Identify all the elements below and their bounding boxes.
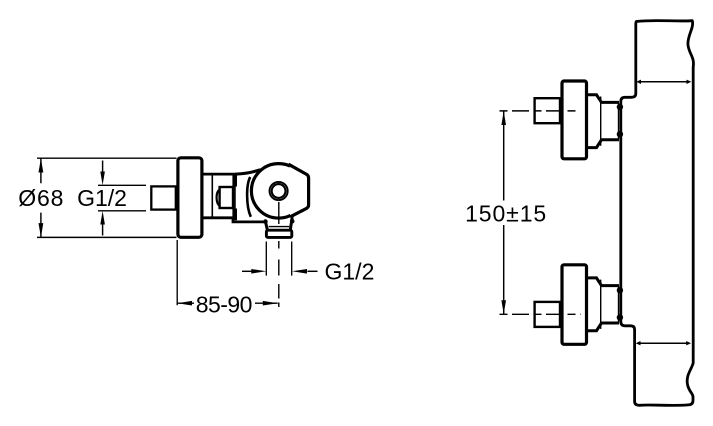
arrow down 150+-15 <box>501 300 506 314</box>
bottom inlet flange <box>562 265 587 345</box>
arrow down O68 <box>39 223 44 237</box>
outlet block <box>266 230 291 237</box>
bottom inlet step upper <box>588 278 619 286</box>
dimension 85-90 right arrow <box>255 301 278 306</box>
body ring vertical <box>211 174 213 218</box>
outlet junction blobs <box>263 219 294 224</box>
arrow up O68 <box>39 158 44 172</box>
outlet left wall <box>265 221 267 230</box>
body ring bottom line <box>203 218 266 222</box>
dimension 85-90 left arrow <box>177 301 194 306</box>
stem band thin <box>234 187 236 209</box>
arrow up 150+-15 <box>501 111 506 125</box>
extension line G1/2 upper <box>98 184 146 186</box>
outlet right wall <box>290 217 292 229</box>
handle body <box>236 163 312 218</box>
dimension line 150+-15 <box>503 111 505 314</box>
extension line 85-90 left <box>176 240 178 305</box>
body ring top line <box>203 173 236 176</box>
stem band <box>232 175 237 220</box>
svg-text:G1/2: G1/2 <box>77 185 127 211</box>
bottom inlet nub <box>535 302 560 327</box>
arrow down G1/2 <box>100 161 105 186</box>
inlet nub left figure <box>151 186 176 209</box>
top inlet step verticals <box>601 97 619 146</box>
body seam line bottom <box>636 341 691 345</box>
top inlet step lower <box>588 140 619 148</box>
top inlet o-ring dots <box>617 104 623 138</box>
top inlet flange <box>562 81 587 159</box>
cartridge arc <box>217 190 220 207</box>
right figure body <box>621 21 694 406</box>
outlet extension line right <box>291 242 293 276</box>
arrow up G1/2 <box>100 211 105 236</box>
extension line bottom (O68) <box>37 236 177 238</box>
extension line top (O68) <box>37 157 177 159</box>
outlet extension line left <box>265 242 267 276</box>
handle button <box>270 182 288 200</box>
top inlet nub <box>535 98 560 123</box>
dimension line O68 <box>40 158 42 237</box>
outlet inner line <box>269 226 290 228</box>
svg-text:150±15: 150±15 <box>465 201 547 227</box>
cartridge block <box>220 187 233 208</box>
handle skirt arc <box>247 177 251 217</box>
svg-text:G1/2: G1/2 <box>325 259 375 285</box>
dimension G1/2 bottom left part <box>242 269 266 274</box>
svg-text:85-90: 85-90 <box>196 291 252 317</box>
bottom inlet o-ring dots <box>617 287 623 321</box>
extension line G1/2 lower <box>98 210 146 212</box>
top inlet centerline <box>500 110 581 112</box>
outlet centerline dashed <box>278 202 280 307</box>
bottom inlet step verticals <box>601 280 619 329</box>
wall flange left figure <box>178 158 202 238</box>
bottom inlet centerline <box>500 313 581 315</box>
top inlet step upper <box>588 95 619 103</box>
dimension G1/2 bottom right part <box>292 269 318 274</box>
body seam line top <box>636 80 691 84</box>
bottom inlet step lower <box>588 323 619 331</box>
svg-text:Ø68: Ø68 <box>18 185 64 211</box>
